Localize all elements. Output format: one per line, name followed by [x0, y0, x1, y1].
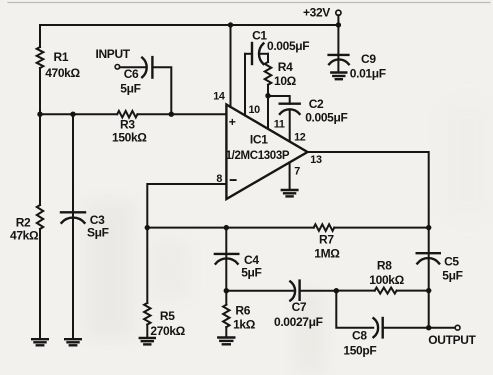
svg-text:R7: R7: [319, 233, 334, 247]
svg-text:0.01μF: 0.01μF: [350, 67, 386, 81]
resistor R8: [375, 288, 397, 294]
wire C4 branch: [225, 228, 227, 291]
svg-text:1MΩ: 1MΩ: [314, 246, 340, 260]
ground (R2 bottom): [32, 339, 48, 345]
svg-text:10Ω: 10Ω: [274, 74, 297, 88]
+32V terminal: [336, 10, 341, 15]
wire left vertical mid: [39, 68, 41, 205]
wire pin8 input: [147, 184, 226, 303]
svg-text:8: 8: [216, 173, 222, 185]
wire C8 to output node: [383, 327, 455, 329]
wire pin7 drop: [289, 162, 291, 189]
resistor R2: [37, 205, 43, 229]
wire R4 bottom lead: [267, 85, 269, 96]
svg-text:5μF: 5μF: [120, 82, 140, 96]
svg-text:SμF: SμF: [87, 226, 109, 240]
wire R4 top lead: [267, 54, 269, 62]
capacitor C4: [215, 254, 238, 264]
svg-text:10: 10: [249, 104, 261, 116]
wire input lead: [120, 66, 146, 68]
resistor R6: [223, 305, 229, 327]
wire C2 hook: [268, 96, 290, 104]
svg-text:C6: C6: [124, 67, 139, 81]
capacitor C5: [417, 253, 440, 263]
op-amp minus sign: [230, 179, 237, 181]
capacitor C3: [61, 212, 85, 223]
wire R6 to ground: [225, 327, 227, 337]
wire C8 branch: [336, 291, 373, 328]
svg-text:100kΩ: 100kΩ: [369, 273, 404, 287]
wire +32V drop through C9: [337, 15, 339, 72]
wire left vertical bottom: [39, 229, 41, 339]
svg-text:5μF: 5μF: [241, 266, 261, 280]
svg-text:+32V: +32V: [303, 6, 330, 20]
wire pin10 drop: [244, 54, 246, 116]
wire R8 rail: [336, 290, 374, 292]
svg-text:OUTPUT: OUTPUT: [428, 333, 476, 347]
resistor R3: [117, 111, 137, 118]
resistor R7: [314, 224, 335, 231]
svg-text:C8: C8: [352, 329, 367, 343]
wire C2 to pin12: [289, 110, 291, 141]
svg-text:1/2MC1303P: 1/2MC1303P: [226, 150, 290, 162]
svg-text:270kΩ: 270kΩ: [150, 324, 185, 338]
wire output top: [308, 152, 429, 328]
svg-text:47kΩ: 47kΩ: [10, 228, 39, 242]
wire plus-input rail right: [138, 113, 227, 115]
wire R5 to ground: [146, 325, 148, 338]
wire C7 rail: [226, 290, 293, 292]
ground (pin7): [282, 190, 298, 196]
page rule artifact: [8, 2, 490, 4]
svg-text:C7: C7: [292, 300, 307, 314]
svg-text:11: 11: [274, 119, 285, 131]
svg-text:13: 13: [310, 154, 322, 166]
capacitor C6: [142, 57, 152, 78]
wire C3 branch: [72, 114, 74, 339]
capacitor C7: [290, 281, 299, 301]
OUTPUT terminal: [455, 325, 460, 330]
ground (C3 bottom): [65, 339, 81, 345]
wire feedback rail: [147, 227, 313, 229]
resistor R1: [37, 47, 44, 68]
svg-text:C5: C5: [444, 255, 459, 269]
INPUT terminal: [115, 65, 120, 70]
svg-text:INPUT: INPUT: [96, 47, 131, 61]
wire C1 left lead: [245, 53, 252, 55]
wire R6 top lead: [225, 291, 227, 305]
wire C6 to junction: [152, 67, 171, 114]
svg-text:0.0027μF: 0.0027μF: [274, 315, 323, 329]
svg-text:IC1: IC1: [250, 132, 268, 146]
svg-text:470kΩ: 470kΩ: [45, 66, 80, 80]
capacitor C9: [329, 55, 349, 64]
svg-text:C9: C9: [361, 52, 376, 66]
svg-text:R6: R6: [235, 304, 250, 318]
wire C7 to junction: [300, 290, 337, 292]
wire pin11 drop: [267, 96, 269, 129]
svg-text:C1: C1: [252, 28, 267, 42]
ground (R6 bottom): [218, 338, 234, 345]
svg-text:150kΩ: 150kΩ: [112, 131, 147, 145]
svg-text:R4: R4: [278, 60, 293, 74]
node junction dots: [228, 22, 233, 27]
wire R8 right lead: [397, 290, 429, 292]
svg-text:R8: R8: [377, 259, 392, 273]
svg-text:+: +: [229, 115, 236, 129]
svg-text:R5: R5: [160, 309, 175, 323]
wire C1 to R4: [259, 53, 268, 55]
resistor R4: [265, 62, 272, 85]
svg-text:R2: R2: [16, 215, 31, 229]
svg-text:0.005μF: 0.005μF: [267, 39, 309, 53]
ground (R5 bottom): [140, 338, 155, 344]
ground (C9): [331, 73, 346, 80]
svg-text:7: 7: [294, 165, 300, 177]
resistor R5: [144, 303, 150, 325]
capacitor C8: [374, 318, 383, 337]
svg-text:1kΩ: 1kΩ: [233, 318, 256, 332]
svg-text:150pF: 150pF: [343, 344, 376, 358]
svg-text:R3: R3: [120, 118, 135, 132]
capacitor C1: [252, 43, 263, 64]
capacitor C2: [280, 104, 300, 114]
svg-text:C2: C2: [309, 97, 324, 111]
wire plus-input rail left: [40, 113, 117, 115]
svg-text:5μF: 5μF: [442, 269, 462, 283]
svg-text:14: 14: [213, 91, 225, 103]
svg-text:0.005μF: 0.005μF: [305, 110, 347, 124]
op-amp U1 triangle: [226, 105, 307, 200]
wire left vertical top: [39, 25, 41, 47]
svg-text:R1: R1: [54, 50, 69, 64]
wire top rail: [40, 24, 338, 26]
wire pin14 drop: [230, 25, 232, 107]
wire feedback rail right: [334, 227, 428, 229]
svg-text:12: 12: [294, 131, 306, 143]
